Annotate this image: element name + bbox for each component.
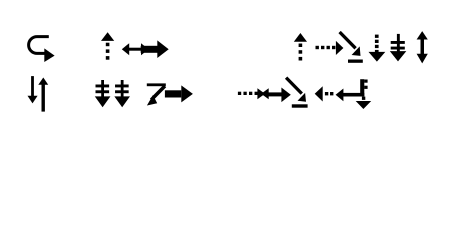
arrow B7 dotted rightwards arrow bbox=[238, 88, 265, 99]
arrow B10 dotted leftwards arrow bbox=[315, 86, 334, 101]
arrow B12 dashed down arrow overlapping return arrow bbox=[356, 80, 372, 110]
arrow B2 upwards arrow of down-up pair bbox=[38, 78, 48, 112]
arrow A8 dashed down arrow bbox=[369, 35, 386, 62]
arrow B11 downwards arrow with corner leftwards (return) bbox=[336, 79, 365, 101]
arrow B8 rightwards arrow with fishtail bbox=[261, 88, 291, 103]
arrow B1 downwards arrow of down-up pair bbox=[28, 76, 38, 103]
arrow A5 dashed up arrow bbox=[294, 33, 307, 61]
arrow A7 south-east arrow with bar below bbox=[340, 32, 363, 63]
arrow A1 clockwise loop arrow bbox=[29, 37, 55, 62]
arrow A2 dashed up arrow bbox=[101, 32, 114, 59]
arrow B4 downwards arrow with double stroke (second) bbox=[114, 80, 130, 107]
arrow B6 heavy black rightwards arrow bbox=[165, 85, 193, 102]
arrow A6 dotted rightwards arrow bbox=[316, 41, 344, 55]
arrow A3 left-right arrow with solid heads bbox=[122, 43, 149, 55]
arrow A10 black up-down arrow bbox=[417, 31, 428, 63]
arrow A4 heavy black rightwards arrow bbox=[141, 40, 169, 58]
arrow B5 south-west arrow with bar above bbox=[147, 83, 166, 105]
arrow B9 south-east arrow with bar below bbox=[286, 78, 307, 108]
arrow B3 downwards arrow with double stroke (first) bbox=[95, 80, 111, 107]
arrow A9 downwards arrow with double stroke bbox=[390, 34, 407, 62]
